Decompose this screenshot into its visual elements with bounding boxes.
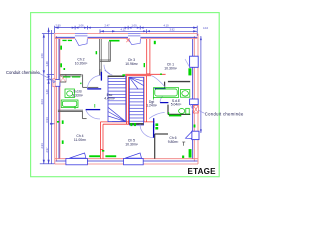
- corridor wall red horizontal: [125, 74, 165, 75]
- door corridor-Ch2 arc: [87, 75, 100, 89]
- green dash under SdB wall a: [63, 76, 70, 77]
- radiator bottom-left wall a: [62, 120, 64, 124]
- door bottom-middle room arc: [140, 124, 154, 137]
- bathtub SdB: [61, 100, 78, 108]
- door bottom-left room arc: [86, 110, 100, 119]
- SE black wall west stub: [164, 82, 166, 88]
- exterior wall top outer line: [55, 33, 198, 35]
- WC west wall: [167, 105, 169, 115]
- toilet WC tank: [186, 108, 189, 114]
- window bottom right sill trapezoid: [125, 153, 141, 158]
- svg-text:Conduit cheminée: Conduit cheminée: [205, 111, 244, 116]
- inner blue liner top wall: [56, 36, 198, 38]
- svg-text:10.30m²: 10.30m²: [125, 142, 138, 146]
- radiator bottom-middle room: [105, 155, 116, 157]
- partition wall bottom rooms: [100, 122, 103, 159]
- exterior wall right outer line: [197, 34, 199, 164]
- radiator bottom-left room: [89, 155, 100, 157]
- washbasin SdE: [180, 90, 189, 98]
- svg-text:4.04: 4.04: [40, 99, 44, 105]
- divider wall Ch3-Ch1: [147, 39, 150, 74]
- svg-text:10.96m²: 10.96m²: [125, 62, 138, 66]
- chimney duct left wall: [60, 74, 66, 82]
- exterior wall left outer line: [54, 34, 56, 164]
- stair right flight treads: [129, 88, 143, 90]
- svg-text:10.30m²: 10.30m²: [164, 66, 177, 70]
- svg-text:2.34: 2.34: [40, 143, 44, 149]
- window top Ch3 gap: [128, 33, 140, 39]
- svg-text:4.10: 4.10: [203, 26, 209, 30]
- svg-text:5.04m²: 5.04m²: [171, 103, 182, 107]
- window bottom left sill trapezoid: [70, 153, 86, 158]
- stair direction stroke: [105, 70, 111, 74]
- exterior wall right mid line: [193, 36, 195, 162]
- window right SdE: [190, 99, 199, 105]
- svg-text:1.06: 1.06: [78, 24, 84, 28]
- window left S.d.B: [55, 80, 60, 87]
- svg-text:4.12: 4.12: [120, 27, 126, 31]
- washbasin SdB: [65, 89, 75, 98]
- hall wall stub: [82, 118, 86, 120]
- radiator bottom-mid east a: [155, 123, 158, 126]
- exterior wall top inner line: [55, 38, 198, 40]
- door stairhead arc: [104, 65, 112, 75]
- pier cross top wall: [126, 39, 130, 43]
- svg-text:Conduit cheminée: Conduit cheminée: [6, 70, 40, 75]
- radiator stairs bottom a: [130, 123, 132, 126]
- radiator Ch3 divider tick: [144, 63, 145, 67]
- radiator Ch2 top: [62, 40, 66, 41]
- svg-text:3.92: 3.92: [169, 27, 175, 31]
- door bottom-right room arc: [149, 112, 165, 118]
- door WC arc: [160, 96, 163, 102]
- window right bottom sill trapezoid: [186, 132, 192, 139]
- radiator Ch2 closet tick: [96, 51, 98, 54]
- radiator divider top tick: [154, 41, 156, 44]
- door bottom-left room leaf: [86, 109, 101, 111]
- svg-text:1.00: 1.00: [131, 24, 137, 28]
- radiator stairs bottom b: [134, 123, 136, 126]
- shutter box left window: [53, 79, 55, 87]
- dimension chain left D: [48, 28, 50, 164]
- radiator bottom-right wall: [189, 149, 192, 158]
- door bottom-right room leaf: [153, 118, 155, 128]
- window top Ch2 gap: [75, 33, 88, 39]
- closet wall bottom: [100, 59, 111, 61]
- inner blue liner bottom wall: [56, 160, 198, 162]
- door corridor-Ch2 leaf: [87, 88, 101, 90]
- sdb mid wall: [83, 86, 99, 88]
- bottom right room west wall: [154, 134, 156, 159]
- window right bottom room: [192, 131, 199, 139]
- radiator bottom-left wall b: [62, 140, 64, 144]
- sheet frame: [31, 13, 220, 177]
- radiator partition tick bottom: [102, 150, 104, 152]
- radiator bottom-right tick: [182, 156, 184, 159]
- WC south wall: [168, 113, 190, 115]
- svg-text:2.97: 2.97: [45, 147, 49, 153]
- stairwell right wall: [144, 76, 146, 122]
- door Dgt from corridor diag: [151, 76, 165, 87]
- radiator right wall mid tick: [194, 125, 196, 128]
- door WC leaf: [160, 102, 168, 104]
- svg-text:11.00m²: 11.00m²: [74, 138, 87, 142]
- door Dgt leaf: [155, 88, 166, 90]
- green stub below SdE tub: [152, 97, 154, 99]
- radiator sdb low tick: [57, 121, 59, 123]
- radiator Ch2 left b: [60, 63, 62, 67]
- door Ch2 vertical leaf: [100, 72, 102, 81]
- radiator corridor tick b: [160, 73, 162, 75]
- dimension line top row 1: [55, 27, 198, 29]
- svg-text:10.20m²: 10.20m²: [75, 61, 88, 65]
- inner blue liner right wall: [192, 39, 194, 159]
- dimension line top row 2: [100, 30, 197, 32]
- stair right flight winders: [129, 77, 143, 81]
- wall stub right of closet door: [99, 69, 101, 75]
- inner blue liner left wall: [58, 39, 60, 159]
- stair top landing edge: [108, 75, 125, 77]
- extension line left thin: [51, 30, 53, 164]
- section mark bottom right: [182, 142, 185, 146]
- leader left conduit: [39, 73, 56, 82]
- window top Ch2 sill trapezoid: [75, 39, 87, 46]
- exterior wall bottom outer line: [55, 163, 198, 165]
- closet wall right: [108, 42, 110, 62]
- radiator SdB wall tick: [80, 83, 81, 85]
- svg-text:1.24m²: 1.24m²: [146, 104, 157, 108]
- landing wall red horizontal bottom: [100, 122, 154, 124]
- toilet WC bowl: [179, 109, 185, 114]
- green dash under SdB wall b: [72, 76, 80, 77]
- bathtub SdE: [153, 88, 178, 98]
- window top Ch3 sill trapezoid: [128, 39, 140, 45]
- stair left flight treads: [108, 77, 126, 79]
- svg-text:ETAGE: ETAGE: [188, 167, 217, 176]
- radiator WC west tick: [168, 112, 169, 114]
- svg-text:2.90: 2.90: [55, 24, 61, 28]
- dim arrow pairs window ticks top: [72, 27, 75, 29]
- radiator SdB small: [64, 68, 66, 70]
- dimension chain left C: [43, 34, 45, 164]
- dim arrows left chains: [43, 34, 45, 38]
- sdb bottom wall: [58, 109, 83, 111]
- stair right flight box: [129, 77, 143, 125]
- svg-text:3.33m²: 3.33m²: [72, 93, 83, 97]
- radiator corridor tick a: [122, 74, 125, 76]
- svg-text:4.10: 4.10: [163, 24, 169, 28]
- sdb green stub: [94, 104, 96, 108]
- radiator Ch1 right wall: [188, 68, 191, 75]
- svg-text:4.40m²: 4.40m²: [104, 97, 115, 101]
- window right Ch1 swing line: [185, 59, 189, 67]
- sdb right wall: [82, 74, 84, 87]
- stairwell divider wall: [126, 76, 128, 125]
- sdb top wall: [58, 69, 100, 119]
- window bottom right box: [124, 159, 144, 165]
- door bottom-middle room leaf: [153, 124, 155, 138]
- window right SdE swing: [190, 105, 194, 113]
- sdb shelf line: [60, 81, 66, 83]
- extension ticks top: [54, 26, 56, 34]
- radiator below WC wall: [169, 115, 181, 117]
- exterior wall left mid line: [56, 36, 58, 162]
- sdb corner wall down: [81, 112, 83, 119]
- svg-text:9.80m²: 9.80m²: [168, 140, 179, 144]
- dim arrows top line: [55, 27, 59, 29]
- stair left flight winders: [108, 107, 126, 121]
- radiator Ch3 top: [109, 40, 120, 42]
- svg-text:1.50: 1.50: [40, 53, 44, 59]
- SE black wall north: [168, 81, 190, 83]
- svg-text:1.40: 1.40: [45, 89, 49, 95]
- svg-text:1.49: 1.49: [45, 61, 49, 67]
- stair bottom landing edge: [129, 123, 143, 125]
- window bottom left box: [66, 159, 88, 165]
- closet wall left: [100, 39, 111, 75]
- bottom right room north wall: [155, 133, 168, 135]
- window right Ch1: [190, 56, 199, 67]
- dim arrows right chain: [200, 37, 202, 41]
- svg-text:2.47: 2.47: [104, 24, 110, 28]
- exterior wall left inner line: [59, 39, 61, 159]
- leader right conduit: [199, 110, 205, 113]
- stair left flight box: [108, 76, 126, 121]
- radiator Ch2 left a: [60, 46, 62, 50]
- radiator bottom-mid east b: [155, 127, 158, 130]
- svg-text:0.94: 0.94: [45, 117, 49, 123]
- chimney duct right wall: [193, 106, 198, 113]
- exterior wall bottom inner line: [55, 158, 198, 160]
- dimension chain right: [200, 36, 202, 133]
- extension ticks left: [42, 33, 54, 35]
